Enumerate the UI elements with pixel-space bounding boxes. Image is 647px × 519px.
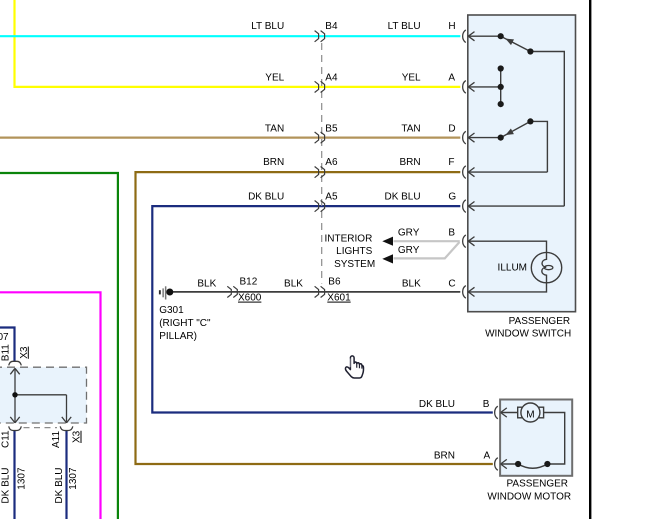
- svg-text:G301: G301: [159, 305, 184, 316]
- svg-text:LT BLU: LT BLU: [251, 21, 284, 32]
- svg-text:X3: X3: [72, 430, 83, 443]
- page border: [589, 0, 591, 519]
- svg-text:PASSENGER: PASSENGER: [507, 478, 569, 489]
- switch internal: H dots: [498, 33, 504, 39]
- svg-text:ILLUM: ILLUM: [498, 262, 527, 273]
- svg-text:B11: B11: [0, 344, 11, 361]
- svg-text:DK BLU: DK BLU: [384, 192, 420, 203]
- svg-text:G: G: [448, 192, 456, 203]
- inline connector X601 pin B4: [315, 31, 325, 42]
- passenger window motor box M1: [500, 400, 572, 476]
- svg-text:A: A: [484, 451, 491, 462]
- svg-text:B5: B5: [325, 123, 338, 134]
- svg-text:PASSENGER: PASSENGER: [509, 316, 570, 327]
- switch internal: D arrowhead: [505, 129, 514, 136]
- svg-text:LIGHTS: LIGHTS: [336, 246, 372, 257]
- svg-text:1307: 1307: [16, 467, 27, 490]
- motor brush dots: [515, 461, 521, 467]
- svg-text:SYSTEM: SYSTEM: [334, 259, 375, 270]
- svg-text:1307: 1307: [68, 467, 79, 490]
- svg-text:BRN: BRN: [399, 157, 420, 168]
- svg-text:H: H: [448, 21, 455, 32]
- switch pin B connector: [463, 235, 475, 248]
- svg-text:LT BLU: LT BLU: [388, 21, 421, 32]
- svg-text:(RIGHT "C": (RIGHT "C": [159, 318, 211, 329]
- svg-text:WINDOW MOTOR: WINDOW MOTOR: [487, 492, 571, 503]
- svg-text:A4: A4: [325, 72, 338, 83]
- switch pin C connector: [463, 286, 475, 299]
- svg-text:GRY: GRY: [398, 228, 420, 239]
- lamp filament: [542, 252, 547, 282]
- wire GREEN box edge: [0, 173, 118, 519]
- svg-text:07: 07: [0, 332, 9, 343]
- switch internal: D dots: [498, 135, 504, 141]
- connector C11 socket (bottom): [9, 426, 22, 430]
- svg-text:B4: B4: [325, 21, 338, 32]
- connector A11 socket (bottom): [60, 426, 73, 430]
- switch pin A connector: [463, 81, 475, 94]
- svg-text:X600: X600: [238, 293, 262, 304]
- svg-text:F: F: [448, 157, 454, 168]
- wire BLK (G301 to switch C): [173, 291, 460, 293]
- svg-text:C11: C11: [0, 430, 11, 448]
- wire DK BLU (left, to B11 connector): [0, 328, 15, 363]
- svg-text:DK BLU: DK BLU: [419, 399, 455, 410]
- inline connector X601 pin A4: [315, 81, 325, 92]
- wire DK BLU (A11 down): [65, 431, 67, 519]
- svg-text:M: M: [526, 409, 534, 420]
- lamp to C row: [468, 283, 546, 292]
- wire BRN (switch F to motor A): [136, 172, 493, 464]
- wire DK BLU (C11 down): [13, 431, 15, 519]
- motor pin B connector: [495, 406, 507, 419]
- dashed harness line X3 (bottom): [24, 427, 58, 429]
- svg-text:PILLAR): PILLAR): [159, 331, 197, 342]
- inline connector X601 pin B6: [315, 286, 325, 297]
- lamp ILLUM circle: [531, 252, 561, 282]
- svg-text:B6: B6: [328, 277, 341, 288]
- svg-text:A11: A11: [51, 431, 62, 448]
- motor pin A connector: [495, 458, 507, 471]
- svg-text:GRY: GRY: [398, 245, 420, 256]
- svg-text:BRN: BRN: [434, 451, 455, 462]
- inline connector X601 pin A6: [315, 167, 325, 178]
- svg-text:WINDOW SWITCH: WINDOW SWITCH: [485, 329, 571, 340]
- svg-text:YEL: YEL: [402, 72, 421, 83]
- dashed box internal wires: [10, 368, 71, 423]
- connector B11/X3 socket (top): [9, 361, 22, 365]
- wire LT BLU: [0, 35, 460, 37]
- svg-text:B: B: [483, 399, 490, 410]
- svg-text:BLK: BLK: [402, 279, 421, 290]
- svg-text:DK BLU: DK BLU: [54, 467, 65, 503]
- svg-text:BRN: BRN: [263, 157, 284, 168]
- svg-text:D: D: [448, 123, 455, 134]
- svg-text:B: B: [448, 228, 455, 239]
- wire GRY (interior lights feed 2): [394, 242, 460, 258]
- switch internal: H arrowhead: [505, 39, 514, 46]
- svg-text:YEL: YEL: [265, 72, 284, 83]
- svg-text:B12: B12: [240, 277, 258, 288]
- wire TAN: [0, 137, 460, 139]
- svg-text:INTERIOR: INTERIOR: [325, 234, 373, 245]
- motor internal circuit: [501, 413, 565, 469]
- svg-text:X601: X601: [327, 293, 351, 304]
- dashed connector box (illumination feed, left diagram): [0, 367, 87, 423]
- svg-text:A: A: [448, 72, 455, 83]
- switch internal: H contact and arm: [468, 36, 564, 206]
- switch pin G connector: [463, 200, 475, 213]
- svg-text:BLK: BLK: [284, 279, 303, 290]
- wire MAGENTA box edge: [0, 292, 101, 519]
- svg-text:A5: A5: [325, 192, 338, 203]
- switch pin H connector: [463, 30, 475, 43]
- interior lights arrow 2: [382, 254, 393, 263]
- svg-text:X3: X3: [19, 346, 30, 359]
- svg-text:DK BLU: DK BLU: [1, 467, 12, 503]
- inline connector X600 pin B12: [227, 286, 237, 297]
- passenger window switch box U1: [468, 15, 576, 312]
- switch internal: G line: [468, 205, 564, 207]
- svg-text:TAN: TAN: [265, 123, 284, 134]
- svg-text:A6: A6: [325, 157, 338, 168]
- switch internal: A dots: [498, 65, 504, 71]
- svg-text:C: C: [448, 279, 455, 290]
- junction dot in dashed box: [12, 392, 17, 397]
- switch pin D connector: [463, 131, 475, 144]
- switch internal: D contact and arm: [468, 121, 547, 172]
- wire GRY (interior lights feed 1): [394, 240, 460, 242]
- svg-text:DK BLU: DK BLU: [248, 192, 284, 203]
- mouse hand cursor: [345, 356, 363, 378]
- wire DK BLU (switch G to motor B): [152, 206, 493, 412]
- inline connector X601 pin B5: [315, 132, 325, 143]
- interior lights arrow 1: [382, 237, 393, 246]
- switch internal: illumination feed B row: [468, 241, 546, 252]
- svg-text:TAN: TAN: [401, 123, 420, 134]
- switch internal: F line: [468, 171, 547, 173]
- dashed harness line X601: [321, 43, 323, 284]
- wire YEL (corner, left): [15, 0, 461, 87]
- switch internal: A contact bar: [468, 69, 500, 105]
- switch pin F connector: [463, 166, 475, 179]
- motor symbol M: [518, 407, 544, 418]
- inline connector X601 pin A5: [315, 201, 325, 212]
- ground G301 symbol: [159, 286, 167, 299]
- svg-text:BLK: BLK: [197, 279, 216, 290]
